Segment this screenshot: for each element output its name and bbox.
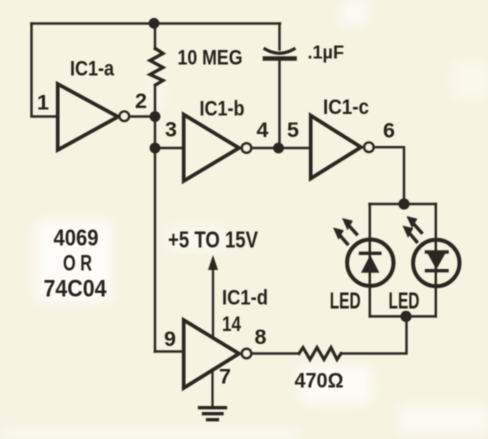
node: pin 3 junction bbox=[150, 143, 161, 154]
svg-text:470Ω: 470Ω bbox=[295, 369, 344, 393]
node: pin 4/5 junction bbox=[273, 143, 284, 154]
wire: vertical bus below resistor bbox=[154, 85, 156, 352]
svg-text:5: 5 bbox=[287, 118, 299, 142]
ground bbox=[200, 370, 226, 420]
inverter IC1-b bbox=[184, 115, 252, 182]
LED D1 emission arrows bbox=[333, 218, 357, 244]
svg-text:LED: LED bbox=[389, 288, 420, 314]
node: top junction bbox=[149, 18, 160, 29]
wire: bus to IC1-d input pin 9 bbox=[155, 350, 183, 352]
svg-text:.1µF: .1µF bbox=[308, 42, 345, 63]
wire: LED top rail bbox=[370, 203, 436, 205]
wire: down and left to resistor bbox=[341, 316, 407, 353]
svg-text:IC1-c: IC1-c bbox=[323, 95, 369, 119]
svg-text:8: 8 bbox=[255, 325, 267, 349]
svg-text:O R: O R bbox=[63, 250, 92, 275]
svg-text:7: 7 bbox=[219, 365, 231, 389]
svg-text:74C04: 74C04 bbox=[44, 275, 108, 302]
wire: main vertical bus (top) bbox=[154, 24, 156, 50]
node: pin 2 junction bbox=[150, 111, 161, 122]
wire: left vertical feedback to pin 1 bbox=[32, 24, 58, 117]
wire: top horizontal rail bbox=[32, 22, 281, 24]
wire: bus to IC1-b input bbox=[155, 147, 183, 149]
svg-text:3: 3 bbox=[165, 118, 177, 142]
wire: IC1-c output down to LED rail bbox=[375, 147, 404, 203]
wire: LED right branch bbox=[435, 204, 438, 316]
LED D2 emission arrows bbox=[403, 216, 422, 242]
wire: LED bottom rail bbox=[370, 315, 436, 318]
node: LED top rail junction bbox=[398, 198, 409, 209]
svg-text:1: 1 bbox=[37, 91, 49, 115]
svg-text:LED: LED bbox=[330, 288, 361, 314]
inverter IC1-c bbox=[311, 116, 374, 179]
svg-text:14: 14 bbox=[222, 312, 241, 336]
svg-text:4: 4 bbox=[257, 118, 269, 142]
power arrow pin 14 bbox=[208, 255, 218, 337]
wire: capacitor branch top bbox=[278, 24, 280, 50]
resistor R2 470 ohm bbox=[299, 348, 341, 360]
node: LED bottom rail junction bbox=[400, 311, 411, 322]
svg-text:IC1-d: IC1-d bbox=[222, 286, 268, 310]
inverter IC1-d bbox=[184, 320, 252, 388]
svg-text:2: 2 bbox=[135, 89, 147, 113]
wire: IC1-b output to IC1-c input bbox=[252, 147, 310, 149]
svg-text:IC1-b: IC1-b bbox=[200, 97, 245, 121]
LED D2 (right) bbox=[413, 240, 459, 286]
capacitor C1 .1uF bbox=[265, 49, 295, 59]
wire: LED left branch bbox=[369, 204, 372, 316]
inverter IC1-a bbox=[58, 84, 129, 150]
LED D1 (left) bbox=[347, 240, 393, 286]
svg-text:6: 6 bbox=[383, 119, 395, 143]
wire: IC1-a output to bus bbox=[130, 115, 155, 117]
wire: capacitor branch bottom bbox=[278, 59, 280, 148]
resistor R1 10 MEG bbox=[150, 49, 163, 86]
svg-text:+5 TO 15V: +5 TO 15V bbox=[168, 227, 259, 253]
svg-text:10 MEG: 10 MEG bbox=[178, 46, 243, 70]
wire: resistor to IC1-d output bbox=[253, 352, 299, 354]
svg-text:IC1-a: IC1-a bbox=[70, 57, 115, 81]
svg-text:9: 9 bbox=[164, 327, 176, 351]
svg-text:4069: 4069 bbox=[54, 225, 99, 251]
